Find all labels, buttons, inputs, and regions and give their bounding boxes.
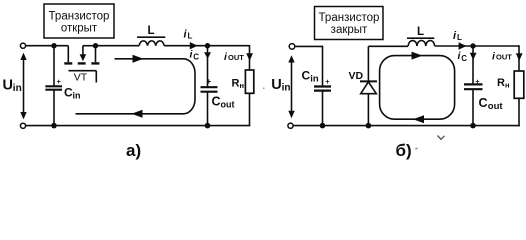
junction node (VT source / rail) [93,43,98,48]
svg-text:н: н [505,81,510,90]
svg-text:открыт: открыт [61,23,98,35]
svg-text:Транзистор: Транзистор [319,12,380,24]
wire Cout to bottom rail [207,92,209,126]
wire top rail left segment [26,45,69,47]
wire RH to bottom rail [249,93,251,125]
svg-text:OUT: OUT [228,53,244,62]
scan artifact dot [263,88,265,90]
wire RH to bottom rail (circuit b) [518,98,520,126]
capacitor Cout (circuit b) [464,77,503,112]
caption box "Транзистор закрыт" [315,7,384,40]
wire top rail right corner down [249,45,251,70]
svg-text:VT: VT [74,72,88,84]
inductor L (circuit a) [137,37,165,46]
svg-text:out: out [221,100,235,110]
junction node (Cin top) [51,43,56,48]
junction node (Cin bottom) [51,123,57,129]
transistor VT [64,46,99,84]
wire rail inductor to right corner (circuit b) [435,45,519,47]
current arrow iC (circuit b) [458,50,477,63]
svg-text:R: R [497,77,505,89]
svg-text:Транзистор: Транзистор [49,11,110,23]
svg-text:C: C [193,52,199,61]
svg-text:+: + [325,77,330,86]
capacitor Cin (circuit a) [45,46,80,126]
diode VD [349,46,378,125]
resistor RH (circuit b) [497,71,524,98]
wire node to Cout (circuit b) [472,46,474,83]
svg-text:VD: VD [349,70,364,82]
inductor L (circuit b) [407,38,435,46]
wire node to Cout [207,46,209,87]
wire top rail to Cin corner [295,46,323,85]
current arrow iL (circuit b) [453,30,466,50]
svg-text:закрыт: закрыт [331,24,368,36]
svg-text:in: in [282,83,291,94]
svg-text:in: in [73,91,81,101]
svg-text:L: L [188,32,193,41]
wire bottom rail (circuit a) [26,125,251,127]
current loop arrow (circuit a) [76,55,196,118]
wire Cout to bottom rail (circuit b) [472,89,474,125]
svg-text:+: + [207,77,212,86]
terminal bottom-left (circuit a) [20,123,25,128]
junction node (Cout bottom, circuit b) [470,123,476,129]
wire rail inductor to right corner [164,45,249,47]
capacitor Cout (circuit a) [201,77,235,109]
svg-text:L: L [147,25,154,37]
current arrow iOUT (circuit b) [492,51,523,63]
svg-text:in: in [310,74,319,85]
svg-text:C: C [479,96,488,110]
svg-text:in: in [13,83,22,94]
junction node (Cout bottom) [205,123,211,129]
svg-text:н: н [240,81,245,90]
svg-text:U: U [3,77,13,93]
svg-text:C: C [302,69,311,83]
svg-text:C: C [461,54,467,63]
wire bottom rail (circuit b) [293,125,520,127]
wire rail to inductor [96,45,140,47]
current arrow iC (circuit a) [190,48,212,61]
current loop arrow (circuit b) [380,52,455,124]
svg-text:out: out [488,101,504,112]
svg-text:C: C [212,95,221,109]
svg-text:L: L [417,26,424,38]
junction node (VD bottom) [366,123,372,129]
terminal top-left (circuit a) [20,43,25,48]
scan artifact checkmark [438,136,445,140]
terminal top-left (circuit b) [289,44,295,50]
junction node (output node, circuit b) [470,43,475,48]
current arrow iOUT (circuit a) [224,51,253,63]
voltage arrow Uin (circuit a) [3,53,27,120]
svg-text:U: U [271,77,281,93]
svg-text:R: R [232,78,240,90]
voltage arrow Uin (circuit b) [271,55,294,118]
terminal bottom-left (circuit b) [288,123,293,128]
junction node (output node, circuit a) [205,43,210,48]
svg-text:+: + [475,77,480,86]
svg-text:OUT: OUT [496,53,512,62]
svg-text:б): б) [396,141,412,160]
resistor RH (circuit a) [232,70,254,93]
current arrow iL (circuit a) [184,29,198,50]
svg-text:а): а) [126,141,141,160]
svg-text:L: L [457,33,462,42]
scan artifact tick near label [415,148,417,149]
capacitor Cin (circuit b) [302,69,332,126]
junction node (Cin bottom, circuit b) [320,123,326,129]
wire top rail right corner down (circuit b) [518,45,520,71]
caption box "Транзистор открыт" [44,4,114,38]
wire top rail (circuit b) [368,45,408,47]
svg-text:+: + [57,77,62,86]
